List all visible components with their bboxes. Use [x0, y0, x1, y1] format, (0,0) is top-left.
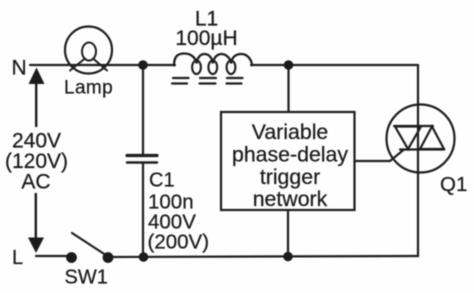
wire box bottom branch [287, 210, 289, 257]
svg-text:100µH: 100µH [175, 27, 237, 50]
svg-text:C1: C1 [149, 170, 175, 192]
junction dot top box [284, 60, 294, 70]
trigger network box [221, 112, 355, 210]
node N arrow up [29, 68, 45, 85]
switch SW1 arm [72, 233, 105, 255]
wire gate from box to triac [355, 150, 405, 162]
capacitor C1 plates [127, 154, 157, 157]
switch SW1 left contact [66, 252, 77, 263]
triac Q1 [387, 105, 455, 173]
node L arrow down [28, 238, 44, 254]
svg-text:Lamp: Lamp [64, 78, 113, 99]
svg-text:network: network [253, 187, 328, 211]
capacitor C1 branch upper wire [142, 65, 144, 155]
wire box top branch [287, 65, 289, 112]
svg-text:trigger: trigger [260, 165, 320, 189]
wire right vertical (triac branch) [417, 65, 419, 256]
inductor L1 coil [174, 54, 252, 66]
svg-text:Q1: Q1 [440, 173, 467, 196]
lamp LP1 [65, 27, 112, 74]
svg-text:AC: AC [21, 171, 50, 194]
capacitor C1 branch lower wire [142, 164, 144, 258]
svg-text:SW1: SW1 [65, 267, 108, 289]
junction dot top C1 [138, 60, 148, 70]
svg-text:L: L [12, 247, 23, 269]
wire N rail left segment [30, 64, 175, 66]
inductor core dashes [172, 78, 243, 84]
wire L rail right segment [108, 256, 418, 257]
svg-text:phase-delay: phase-delay [232, 143, 348, 167]
svg-text:Variable: Variable [252, 120, 329, 144]
switch SW1 right contact [103, 252, 114, 263]
inductor L1 loop 3 [227, 61, 236, 75]
wire L rail left segment [36, 255, 71, 257]
inductor L1 loop 2 [208, 61, 217, 75]
junction dot bottom C1 [139, 252, 149, 262]
wire N rail right segment [251, 64, 418, 66]
svg-text:(200V): (200V) [148, 231, 210, 254]
svg-text:N: N [12, 57, 27, 80]
inductor L1 loop 1 [192, 61, 201, 75]
junction dot bottom box [283, 252, 293, 262]
